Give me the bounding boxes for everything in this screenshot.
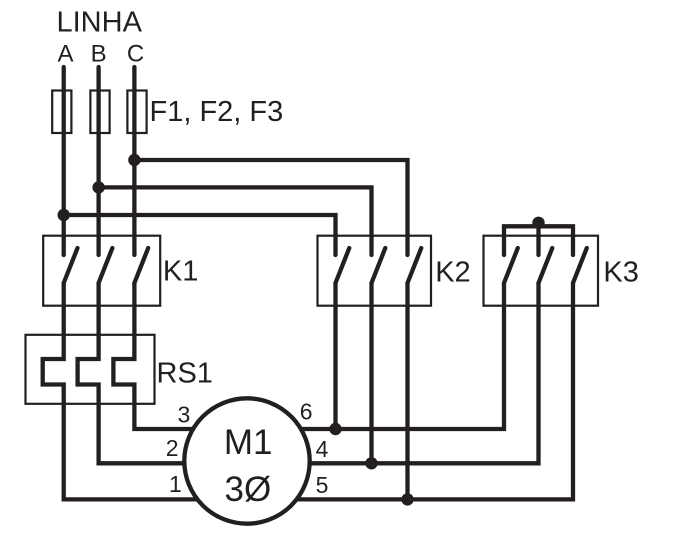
wire K3 pole 3 to motor terminal 5 (280, 283, 573, 499)
junction dot tap B (92, 181, 104, 193)
K1 pole 1 blade (64, 248, 78, 283)
wire K3 pole 2 to motor terminal 4 (280, 283, 539, 463)
junction dot tap C (128, 154, 140, 166)
svg-text:1: 1 (169, 471, 182, 497)
svg-text:6: 6 (300, 399, 313, 425)
junction dot tap A (58, 209, 70, 221)
fuse F3 (127, 91, 146, 134)
svg-text:LINHA: LINHA (57, 7, 143, 39)
svg-text:C: C (127, 41, 144, 68)
RS1 heater B and wire to motor terminal 2 (78, 283, 215, 463)
junction dot K2 pole 3 on wire 5 (401, 493, 413, 505)
svg-text:5: 5 (316, 472, 329, 498)
wire tap phase B to K2 pole 2 (99, 187, 372, 255)
motor M1 circle (184, 398, 309, 523)
fuse F2 (90, 91, 109, 134)
RS1 heater C and wire to motor terminal 3 (113, 283, 215, 429)
K3 pole 2 blade (539, 248, 553, 283)
svg-text:K1: K1 (163, 255, 198, 287)
contactor K1 box (43, 236, 160, 306)
overload relay RS1 box (26, 335, 155, 404)
K2 pole 1 blade (336, 248, 350, 283)
svg-text:A: A (57, 41, 73, 68)
junction dot K2 pole 2 on wire 4 (365, 457, 377, 469)
K3 star bar (504, 226, 573, 255)
svg-text:M1: M1 (224, 423, 273, 462)
K2 pole 3 blade (408, 248, 422, 283)
wire K3 pole 1 to motor terminal 6 (280, 283, 504, 429)
wire phase B from line to K1 pole 2 (96, 67, 100, 255)
wire K2 pole 2 to motor wire 4 (369, 283, 373, 463)
svg-text:F1, F2, F3: F1, F2, F3 (150, 96, 284, 128)
RS1 heater A and wire to motor terminal 1 (43, 283, 215, 499)
svg-text:4: 4 (316, 436, 329, 462)
svg-text:2: 2 (166, 435, 179, 461)
K3 star bar middle stub (536, 226, 540, 255)
junction dot K2 pole 1 on wire 6 (329, 423, 341, 435)
contactor K2 box (318, 236, 432, 306)
K3 pole 1 blade (504, 248, 518, 283)
K3 pole 3 blade (573, 248, 587, 283)
K2 pole 2 blade (372, 248, 386, 283)
K1 pole 2 blade (99, 248, 113, 283)
wire phase C from line to K1 pole 3 (132, 67, 136, 255)
K1 pole 3 blade (134, 248, 148, 283)
svg-text:RS1: RS1 (157, 358, 213, 390)
fuse F1 (52, 91, 71, 134)
svg-text:3: 3 (178, 402, 191, 428)
wire K2 pole 3 to motor wire 5 (405, 283, 409, 499)
svg-text:K2: K2 (435, 256, 470, 288)
svg-text:B: B (91, 41, 107, 68)
wire tap phase C to K2 pole 3 (134, 160, 407, 255)
wire tap phase A to K2 pole 1 (64, 215, 336, 255)
svg-text:3Ø: 3Ø (225, 470, 272, 509)
contactor K3 box (484, 236, 599, 306)
wire K2 pole 1 to motor wire 6 (333, 283, 337, 429)
wire phase A from line to K1 pole 1 (62, 67, 66, 255)
svg-text:K3: K3 (603, 257, 638, 289)
junction dot K3 star point (532, 217, 544, 229)
